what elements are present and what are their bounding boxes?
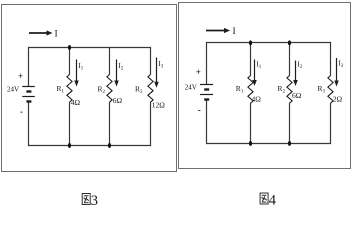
svg-text:I: I: [55, 30, 58, 40]
wire: fig3 left branch above battery: [28, 47, 30, 86]
svg-text:+: +: [18, 71, 23, 81]
caption 图4: [260, 193, 268, 204]
battery 24V (fig4): [200, 85, 213, 100]
svg-text:I: I: [233, 27, 236, 37]
current arrow I3 (fig3): [154, 58, 159, 88]
node dot fig4 R1 top: [249, 40, 252, 45]
svg-text:4: 4: [269, 192, 277, 208]
node dot fig3 R1 top: [68, 45, 71, 50]
svg-text:4Ω: 4Ω: [71, 98, 81, 107]
node dot fig3 R1 bottom: [68, 143, 71, 148]
current arrow I2 (fig4): [293, 61, 298, 87]
svg-text:4Ω: 4Ω: [252, 95, 262, 104]
node dot fig3 R2 bottom: [108, 143, 111, 148]
node dot fig4 R2 top: [288, 40, 291, 45]
resistor R1 (fig4): [248, 43, 253, 144]
current arrow I (fig3 top): [29, 30, 53, 35]
svg-text:-: -: [198, 105, 201, 115]
svg-text:3: 3: [91, 193, 98, 209]
resistor R1 (fig3): [67, 48, 72, 146]
svg-text:-: -: [20, 107, 23, 117]
wire: fig3 top bus: [29, 47, 151, 49]
node dot fig4 R1 bottom: [249, 141, 252, 146]
current arrow I2 (fig3): [114, 60, 119, 87]
current arrow I1 (fig3): [74, 60, 79, 87]
wire: fig3 bottom bus: [29, 145, 151, 147]
node dot fig4 R2 bottom: [288, 141, 291, 146]
current arrow I3 (fig4): [334, 58, 339, 87]
svg-text:12Ω: 12Ω: [152, 101, 166, 110]
resistor R3 (fig3, right edge branch): [148, 47, 153, 146]
svg-text:2Ω: 2Ω: [333, 95, 343, 104]
frame of figure 3: [2, 5, 177, 172]
svg-text:6Ω: 6Ω: [113, 96, 123, 105]
frame of figure 4: [179, 3, 351, 169]
battery 24V (fig3): [22, 87, 35, 102]
wire: fig4 bottom bus: [207, 143, 331, 145]
svg-text:6Ω: 6Ω: [292, 91, 302, 100]
svg-text:24V: 24V: [7, 86, 19, 94]
wire: fig4 left branch below battery: [206, 100, 208, 145]
wire: fig3 left branch below battery: [28, 102, 30, 147]
caption 图3: [82, 194, 90, 205]
svg-text:+: +: [196, 67, 201, 77]
resistor R2 (fig3): [107, 48, 112, 146]
wire: fig4 top bus: [207, 42, 331, 44]
resistor R2 (fig4): [287, 43, 292, 144]
current arrow I (fig4 top): [206, 28, 230, 33]
wire: fig4 left branch above battery: [206, 42, 208, 84]
current arrow I1 (fig4): [252, 60, 257, 87]
resistor R3 (fig4, right edge branch): [328, 42, 333, 144]
svg-text:24V: 24V: [185, 83, 197, 91]
